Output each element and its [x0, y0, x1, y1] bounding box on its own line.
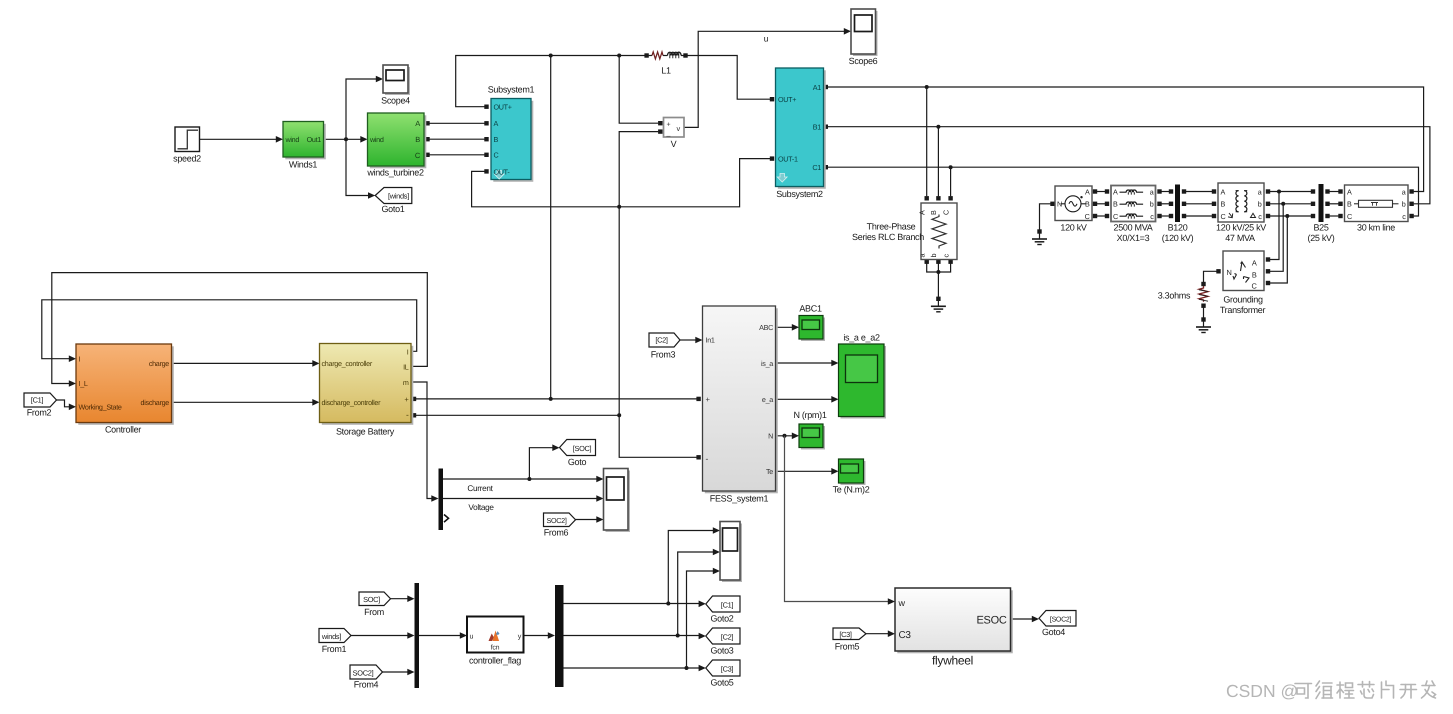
watermark CJK glyph xin [1358, 682, 1374, 699]
svg-text:I: I [79, 355, 81, 364]
svg-text:SOC2]: SOC2] [353, 669, 374, 678]
watermark CJK glyph cheng [1337, 682, 1354, 698]
svg-text:Goto2: Goto2 [710, 614, 733, 624]
goto tag Goto5 [C3] [706, 660, 740, 688]
wire 120 kV N to ground [1040, 202, 1055, 230]
transformer 2500 MVA X0/X1=3 [1111, 186, 1156, 244]
scope Te (N.m)2 [833, 459, 870, 495]
wire Voltage output to scope [443, 495, 604, 502]
svg-text:Scope4: Scope4 [381, 96, 410, 106]
svg-text:N: N [1057, 200, 1062, 209]
svg-text:b: b [1258, 200, 1262, 209]
subsystem flywheel [895, 588, 1013, 668]
bus bar B120 [1162, 185, 1194, 244]
wire Storage Battery I feedback to Controller I [42, 300, 417, 362]
svg-text:A: A [1113, 188, 1118, 197]
watermark CJK glyph kai [1400, 685, 1417, 699]
svg-text:C: C [1347, 212, 1352, 221]
wire 120kV/25kV transformer to bus B25 (with grounding transformer taps) [1266, 189, 1315, 218]
svg-text:IL: IL [403, 362, 409, 371]
svg-text:a: a [1402, 188, 1406, 197]
wire Mux1 to controller_flag u [419, 632, 467, 639]
svg-text:[C2]: [C2] [655, 336, 668, 345]
three-phase source 120 kV [1055, 186, 1092, 233]
svg-text:_: _ [666, 130, 671, 137]
wire drop A phase into RLC branch A [925, 87, 929, 201]
svg-text:C: C [494, 151, 499, 160]
svg-text:I: I [407, 347, 409, 356]
svg-text:I_L: I_L [79, 379, 88, 388]
wire DC- rail: Subsystem1 OUT- down to bottom bus to Subsystem2 OUT-1 [472, 156, 775, 208]
svg-text:a: a [917, 254, 926, 258]
scope N (rpm)1 [793, 410, 826, 450]
from tag From1 winds] [319, 629, 351, 655]
wire controller_flag y to Demux [524, 632, 556, 639]
svg-text:CSDN @: CSDN @ [1226, 681, 1298, 701]
svg-text:[winds]: [winds] [388, 191, 409, 200]
svg-text:47 MVA: 47 MVA [1225, 233, 1255, 243]
wire Storage Battery - join - rail [412, 413, 619, 417]
svg-text:winds_turbine2: winds_turbine2 [366, 168, 424, 178]
svg-text:Te: Te [766, 467, 773, 476]
wire V output up to Scope6 (node u) [684, 28, 851, 127]
svg-text:2500 MVA: 2500 MVA [1114, 223, 1153, 233]
svg-text:X0/X1=3: X0/X1=3 [1117, 233, 1150, 243]
wire RLC branch abc joined to ground [925, 260, 953, 297]
svg-text:Goto4: Goto4 [1042, 627, 1065, 637]
svg-text:Out1: Out1 [307, 135, 322, 144]
svg-text:m: m [403, 378, 409, 387]
svg-text:[C2]: [C2] [721, 633, 734, 642]
wire winds_turbine2 B to Subsystem1 B [425, 137, 488, 141]
svg-text:FESS_system1: FESS_system1 [710, 494, 769, 504]
svg-text:[C3]: [C3] [721, 665, 734, 674]
svg-text:v: v [677, 124, 681, 133]
svg-text:(120 kV): (120 kV) [1162, 233, 1194, 243]
svg-text:Transformer: Transformer [1220, 305, 1266, 315]
svg-text:From4: From4 [354, 680, 379, 690]
wire L1 to Subsystem2 OUT+ [683, 53, 774, 101]
subsystem Subsystem1 [488, 85, 535, 182]
wire grounding transformer A tap [1266, 192, 1279, 262]
svg-text:In1: In1 [706, 336, 715, 345]
from tag From6 SOC2] [544, 513, 576, 538]
svg-text:Goto1: Goto1 [381, 204, 404, 214]
svg-text:b: b [929, 254, 938, 258]
wire Demux out1 to Goto2 (tap to scope) [564, 601, 706, 608]
wire Storage Battery m down to Bus Selector [411, 382, 439, 502]
scope is_a e_a2 [839, 333, 887, 419]
wire 2500 MVA to bus B120 [1157, 189, 1173, 218]
svg-text:charge_controller: charge_controller [322, 359, 373, 368]
svg-text:OUT+: OUT+ [778, 95, 796, 104]
wire N down to flywheel w [785, 436, 896, 605]
wire 120 kV to 2500 MVA transformer [1093, 189, 1109, 218]
svg-text:B: B [1221, 200, 1226, 209]
svg-text:3.3ohms: 3.3ohms [1158, 291, 1191, 301]
wire Winds1 Out1 to winds_turbine2 wind (junction node) [324, 136, 368, 143]
svg-text:120 kV/25 kV: 120 kV/25 kV [1216, 223, 1266, 233]
grounding transformer [1220, 251, 1266, 315]
svg-text:[SOC2]: [SOC2] [1050, 616, 1072, 624]
svg-text:From: From [364, 607, 384, 617]
svg-text:A: A [494, 119, 499, 128]
svg-text:B1: B1 [813, 123, 821, 132]
svg-text:OUT+: OUT+ [494, 103, 512, 112]
svg-text:Controller: Controller [105, 425, 141, 435]
wire From1 to Mux1 [351, 632, 415, 639]
svg-text:ABC: ABC [759, 323, 773, 332]
svg-text:[C1]: [C1] [721, 601, 734, 610]
watermark CJK glyph fa [1422, 681, 1436, 698]
svg-text:Subsystem1: Subsystem1 [488, 85, 535, 95]
svg-text:120 kV: 120 kV [1060, 223, 1087, 233]
wire tap up to scope input 2 [678, 549, 720, 636]
goto tag Goto2 [C1] [706, 596, 740, 624]
wire winds_turbine2 C to Subsystem1 C [425, 153, 488, 157]
wire Current output to scope (tap to Goto SOC) [443, 476, 604, 483]
wire grounding transformer C tap [1266, 216, 1288, 285]
svg-text:[C1]: [C1] [31, 396, 44, 405]
svg-text:B: B [1113, 200, 1118, 209]
wire B120 to 120kV/25kV transformer [1182, 189, 1216, 218]
svg-text:ESOC: ESOC [977, 615, 1007, 627]
svg-text:(25 kV): (25 kV) [1308, 233, 1335, 243]
svg-text:N: N [768, 432, 773, 441]
svg-text:Scope6: Scope6 [849, 56, 878, 66]
svg-text:Storage Battery: Storage Battery [336, 427, 395, 437]
subsystem Subsystem2 [776, 68, 826, 199]
transformer 120 kV/25 kV 47 MVA [1216, 183, 1266, 243]
svg-text:Three-Phase: Three-Phase [867, 222, 916, 232]
wire Controller charge to Storage Battery charge_controller [172, 360, 320, 367]
svg-text:From2: From2 [27, 408, 52, 418]
wire DC+ drop to battery/FESS + line [549, 56, 553, 401]
scope Scope4 [381, 65, 410, 106]
bus selector [439, 469, 449, 531]
svg-text:A: A [415, 119, 420, 128]
svg-text:a: a [1150, 188, 1154, 197]
three-phase series RLC branch [852, 203, 957, 260]
svg-text:Grounding: Grounding [1223, 295, 1263, 305]
wire FESS N to scope N (rpm)1 (junction to flywheel) [776, 433, 800, 440]
wire tap up to scope input 3 [687, 568, 721, 668]
goto tag Goto4 [SOC2] [1039, 611, 1076, 638]
wire DC+ rail: Subsystem1 OUT+ up to top bus toward L1 [456, 53, 649, 109]
mux Mux1 [415, 583, 420, 688]
svg-text:B: B [1252, 271, 1257, 280]
wire tap up to scope input 1 [668, 527, 720, 603]
svg-text:C3: C3 [899, 630, 912, 641]
svg-text:B: B [1347, 200, 1352, 209]
svg-text:w: w [898, 598, 906, 608]
svg-text:Winds1: Winds1 [289, 160, 318, 170]
wire grounding transformer B tap [1266, 204, 1283, 274]
subsystem Controller [76, 344, 174, 435]
wire V- sense down to - rail and FESS - [617, 129, 701, 459]
inductor branch L1 [649, 52, 684, 76]
wire speed2 to Winds1 [200, 136, 284, 143]
svg-text:From5: From5 [835, 642, 860, 652]
subsystem Storage Battery [320, 344, 414, 437]
wire Storage Battery IL feedback to Controller I_L [52, 273, 428, 387]
voltage measurement V [664, 118, 685, 150]
wire branch down to Goto1 [346, 139, 375, 199]
wire Demux out2 to Goto3 (tap to scope) [564, 633, 706, 640]
svg-text:A: A [1347, 188, 1352, 197]
svg-text:fcn: fcn [491, 644, 500, 652]
svg-text:C: C [1113, 212, 1118, 221]
svg-text:N: N [1227, 268, 1232, 277]
svg-text:A1: A1 [813, 83, 821, 92]
svg-text:C1: C1 [812, 163, 821, 172]
subsystem FESS_system1 [703, 306, 778, 504]
svg-text:b: b [1402, 200, 1406, 209]
scope battery signals [604, 469, 631, 533]
demux [555, 585, 564, 687]
scope Scope6 [849, 9, 878, 66]
svg-text:From6: From6 [544, 528, 569, 538]
svg-text:Voltage: Voltage [468, 503, 494, 512]
svg-text:Te (N.m)2: Te (N.m)2 [833, 485, 870, 495]
svg-text:+: + [667, 121, 671, 128]
wire grounding transformer N to 3.3ohms resistor [1201, 269, 1220, 286]
pi section 30 km line [1345, 185, 1409, 233]
from tag From4 SOC2] [350, 665, 383, 690]
svg-text:a: a [1258, 188, 1262, 197]
svg-text:C: C [415, 151, 421, 160]
wire A1 phase: Subsystem2 A1 to far right down to 30 km line a [824, 85, 1424, 192]
from tag From3 [C2] [649, 333, 680, 360]
goto tag Goto [SOC] [560, 440, 596, 468]
svg-text:B120: B120 [1168, 223, 1188, 233]
svg-text:Goto3: Goto3 [710, 646, 733, 656]
svg-text:speed2: speed2 [173, 154, 201, 164]
svg-text:[SOC]: [SOC] [573, 444, 592, 453]
svg-text:L1: L1 [661, 66, 671, 76]
svg-text:V: V [671, 139, 677, 149]
svg-text:controller_flag: controller_flag [469, 656, 521, 666]
bus bar B25 [1308, 184, 1335, 243]
wire flywheel ESOC to Goto4 [1011, 616, 1040, 623]
watermark CJK glyph ke [1295, 684, 1312, 699]
subsystem Winds1 [283, 122, 326, 170]
wire From3 to FESS In1 [680, 337, 703, 344]
svg-text:flywheel: flywheel [932, 654, 973, 668]
svg-text:Goto5: Goto5 [710, 678, 733, 688]
svg-text:SOC]: SOC] [363, 595, 380, 604]
from tag From5 [C3] [833, 628, 866, 652]
svg-text:Subsystem2: Subsystem2 [776, 189, 823, 199]
svg-text:B: B [415, 135, 420, 144]
wire From2 to Controller Working_State [57, 400, 77, 410]
svg-text:B: B [1085, 200, 1090, 209]
wire FESS ABC to scope ABC1 [776, 324, 800, 331]
goto tag Goto1 [winds] [375, 188, 412, 215]
svg-text:From3: From3 [651, 350, 676, 360]
watermark CJK glyph bian [1316, 681, 1333, 699]
svg-text:winds]: winds] [321, 632, 341, 641]
matlab function controller_flag [467, 617, 524, 666]
svg-text:u: u [470, 632, 474, 641]
wire drop C phase into RLC branch C [948, 167, 952, 200]
svg-text:C: C [941, 210, 950, 215]
svg-text:u: u [764, 34, 769, 44]
wire B25 to 30 km line [1325, 189, 1342, 218]
svg-text:ABC1: ABC1 [799, 304, 822, 314]
svg-text:A: A [1085, 188, 1090, 197]
svg-text:OUT-1: OUT-1 [778, 155, 798, 164]
wire V+ sense from top bus [619, 56, 662, 126]
step source speed2 [173, 127, 201, 164]
wire From4 to Mux1 [383, 669, 415, 676]
svg-text:is_a: is_a [761, 359, 773, 368]
wire Demux out3 to Goto5 (tap to scope) [564, 665, 706, 672]
wire Controller discharge to Storage Battery discharge_controller [172, 399, 320, 406]
svg-text:discharge_controller: discharge_controller [322, 398, 382, 407]
wire B1 phase: Subsystem2 B1 to far right down to 30 km line b [824, 125, 1430, 204]
svg-text:is_a e_a2: is_a e_a2 [843, 333, 880, 343]
svg-text:A: A [1252, 259, 1257, 268]
svg-text:charge: charge [149, 359, 169, 368]
svg-text:From1: From1 [322, 644, 347, 654]
wire FESS Te to scope Te (N.m)2 [776, 468, 839, 475]
watermark CSDN @ text [1226, 681, 1298, 701]
svg-text:[C3]: [C3] [839, 630, 852, 639]
wire tap up to Goto [SOC] [529, 444, 559, 479]
from tag From2 [C1] [24, 393, 57, 418]
wire FESS is_a to scope is_a e_a2 [776, 360, 839, 367]
goto tag Goto3 [C2] [706, 628, 740, 656]
wire From5 to flywheel C3 [866, 630, 895, 637]
svg-text:discharge: discharge [141, 398, 170, 407]
svg-text:SOC2]: SOC2] [546, 516, 566, 525]
watermark CJK glyph pian [1382, 681, 1394, 698]
from tag From SOC] [359, 592, 391, 617]
svg-text:A: A [917, 210, 926, 215]
svg-text:C: C [1085, 212, 1090, 221]
scope flag signals [720, 522, 742, 583]
svg-text:30 km line: 30 km line [1357, 223, 1395, 233]
svg-text:A: A [1221, 188, 1226, 197]
wire branch up to Scope4 [346, 76, 383, 140]
wire From6 to scope [576, 516, 604, 523]
wire C1 phase: Subsystem2 C1 to far right down to 30 km line c [824, 165, 1419, 216]
svg-text:Goto: Goto [568, 457, 587, 467]
svg-text:wind: wind [285, 135, 300, 144]
svg-text:e_a: e_a [762, 395, 773, 404]
wire Storage Battery + to FESS_system1 + [412, 397, 701, 401]
svg-text:b: b [1150, 200, 1154, 209]
svg-text:B: B [494, 135, 499, 144]
scope ABC1 [799, 304, 825, 342]
svg-text:Current: Current [467, 484, 493, 493]
svg-text:B: B [929, 210, 938, 215]
wire winds_turbine2 A to Subsystem1 A [425, 121, 488, 125]
subsystem winds_turbine2 [366, 113, 426, 178]
svg-text:wind: wind [369, 135, 384, 144]
svg-text:C: C [1221, 212, 1226, 221]
svg-text:Working_State: Working_State [79, 403, 122, 412]
wire FESS e_a to scope is_a e_a2 [776, 396, 839, 403]
svg-text:c: c [941, 254, 950, 258]
svg-text:OUT-: OUT- [494, 167, 511, 176]
svg-text:Series RLC Branch: Series RLC Branch [852, 232, 924, 242]
svg-text:B25: B25 [1313, 223, 1328, 233]
wire drop B phase into RLC branch B [936, 127, 940, 201]
resistor 3.3ohms [1158, 286, 1208, 302]
svg-text:N (rpm)1: N (rpm)1 [793, 410, 826, 420]
wire From to Mux1 [391, 595, 415, 602]
